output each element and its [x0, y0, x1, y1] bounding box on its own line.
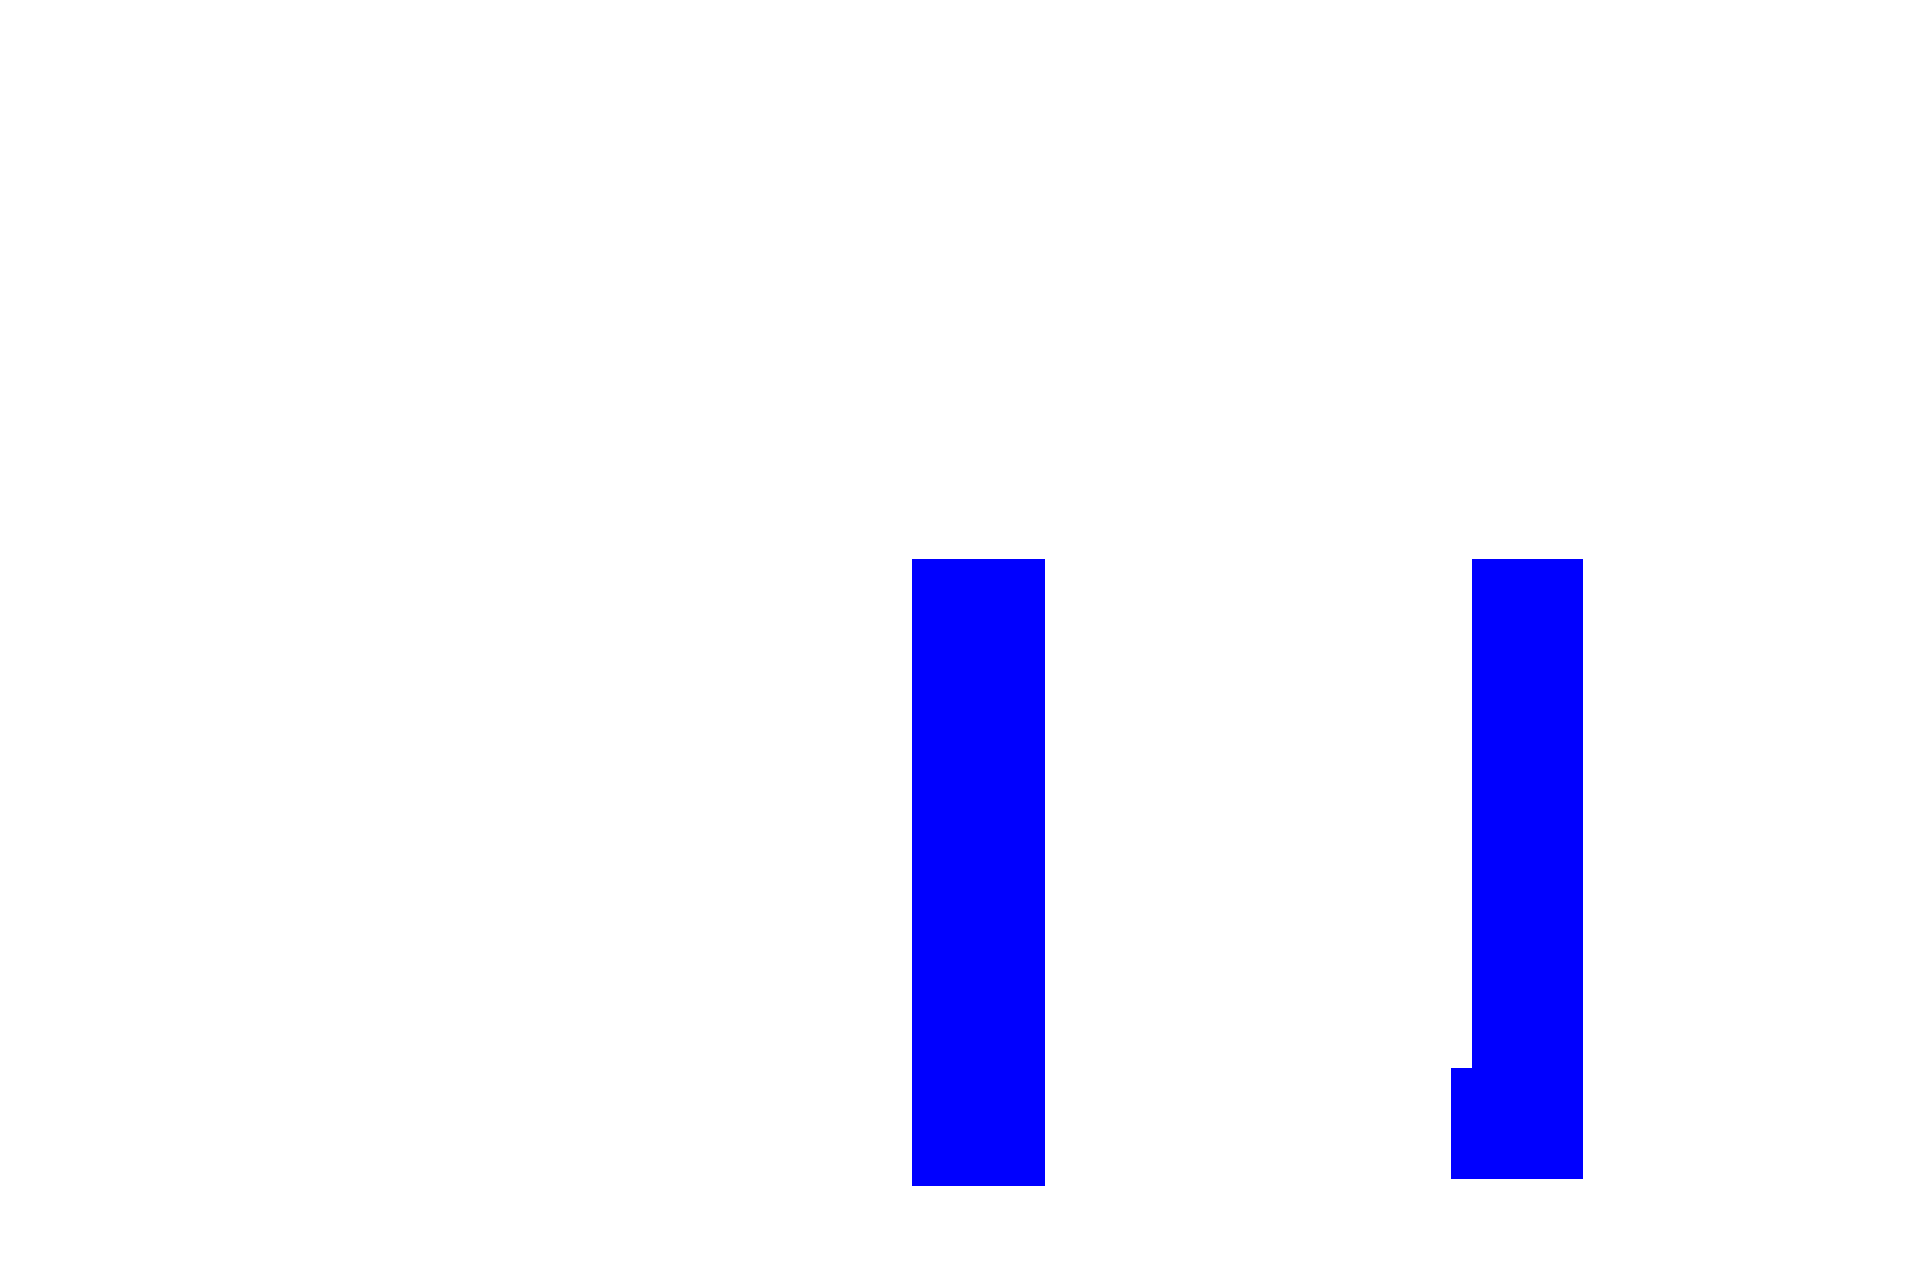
- bar 2 step (bottom-left extension of right bar): [1451, 1068, 1472, 1179]
- bar 2 (right blue bar, tall stem): [1472, 559, 1583, 1179]
- bar 1 (left blue bar): [912, 559, 1045, 1186]
